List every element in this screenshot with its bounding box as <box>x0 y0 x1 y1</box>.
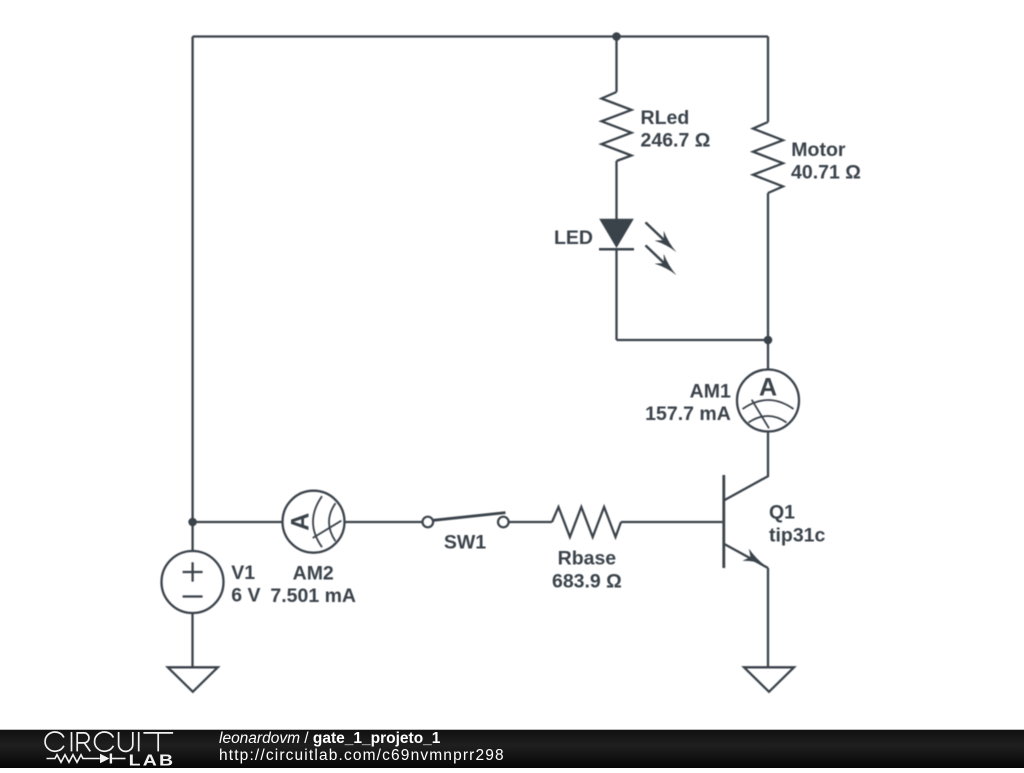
wire Motor top lead <box>767 37 769 123</box>
svg-text:RLed: RLed <box>641 107 690 129</box>
wire top horizontal <box>193 35 768 37</box>
svg-text:Motor: Motor <box>791 139 846 161</box>
wire junction to AM1 <box>767 340 769 370</box>
svg-text:Q1: Q1 <box>769 501 795 523</box>
svg-text:40.71 Ω: 40.71 Ω <box>791 161 861 183</box>
ground left <box>168 667 218 692</box>
diode LED cathode bar <box>599 248 634 251</box>
svg-text:683.9 Ω: 683.9 Ω <box>552 571 622 593</box>
switch SW1 <box>423 513 509 528</box>
svg-text:V1: V1 <box>231 562 255 584</box>
wire LED bottom lead <box>615 249 617 340</box>
svg-text:AM2: AM2 <box>293 563 334 585</box>
resistor Motor <box>753 122 783 193</box>
svg-text:A: A <box>759 374 777 402</box>
label Rbase value <box>552 548 622 593</box>
logo resistor diode glyph <box>47 754 126 764</box>
wire V1 to ground <box>191 613 193 667</box>
wire left junction to AM2 <box>193 521 283 523</box>
resistor Rbase <box>552 507 621 537</box>
source V1 <box>162 551 224 613</box>
svg-text:tip31c: tip31c <box>769 524 826 546</box>
label AM2 value <box>270 563 356 607</box>
label SW1 <box>444 531 486 553</box>
svg-text:157.7 mA: 157.7 mA <box>645 403 731 425</box>
wire Rbase to base <box>621 521 722 523</box>
transistor Q1 base bar <box>722 475 725 568</box>
svg-text:6 V: 6 V <box>231 585 260 607</box>
diode LED triangle <box>601 220 633 247</box>
svg-text:LAB: LAB <box>129 751 176 768</box>
logo CIRCUIT word <box>45 732 173 751</box>
wire emitter to ground <box>767 568 769 667</box>
ammeter AM1 <box>737 370 799 432</box>
svg-text:Rbase: Rbase <box>558 548 617 570</box>
wire Motor bottom lead <box>767 193 769 340</box>
svg-text:7.501 mA: 7.501 mA <box>270 585 356 607</box>
wire left vertical <box>191 37 193 523</box>
label Motor value <box>791 139 861 183</box>
ammeter AM2 <box>283 491 345 553</box>
label Q1 <box>769 501 826 546</box>
label LED <box>554 227 593 249</box>
footer text <box>219 731 505 765</box>
svg-text:246.7 Ω: 246.7 Ω <box>641 130 711 152</box>
node top junction <box>612 32 621 41</box>
wire SW1 to Rbase <box>509 521 552 523</box>
label AM1 value <box>645 381 731 426</box>
svg-text:SW1: SW1 <box>444 531 486 553</box>
footer bar <box>0 727 1024 768</box>
svg-text:A: A <box>287 513 315 531</box>
wire bottom of led branch horizontal <box>617 339 769 341</box>
wire RLed to LED <box>615 161 617 220</box>
label V1 value <box>231 562 260 607</box>
wire AM1 to collector <box>724 432 768 501</box>
svg-text:LED: LED <box>554 227 593 249</box>
logo LAB word <box>129 751 176 769</box>
svg-text:AM1: AM1 <box>690 381 731 403</box>
wire RLed top lead <box>615 37 617 93</box>
transistor Q1 emitter <box>724 544 768 568</box>
diode LED light arrow 2 <box>646 245 677 275</box>
wire AM2 to SW1 <box>345 521 423 523</box>
label RLed value <box>641 107 711 152</box>
ground right <box>744 667 794 692</box>
diode LED light arrow 1 <box>646 222 677 252</box>
node left junction <box>188 518 197 527</box>
node branch merge junction <box>764 336 773 345</box>
resistor RLed <box>602 92 632 161</box>
wire junction to V1 <box>191 522 193 551</box>
